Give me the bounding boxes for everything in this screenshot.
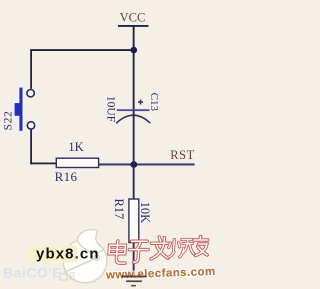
capacitor plus sign: [138, 100, 143, 105]
capacitor C13 curved plate: [116, 115, 150, 123]
wire junction A down to capacitor: [133, 50, 135, 110]
glyph 子: [128, 241, 148, 262]
svg-text:R16: R16: [55, 169, 78, 184]
wire VCC bar to junction A: [133, 26, 135, 50]
watermark: www.elecfans.com: [105, 266, 216, 282]
glyph 友: [193, 237, 209, 256]
ground bar 2: [126, 280, 142, 282]
watermark: yellow highlight: [29, 246, 78, 263]
svg-text:10K: 10K: [138, 202, 152, 224]
wire down-left to switch: [30, 50, 32, 89]
switch S22 button cap: [15, 103, 23, 116]
capacitor C13 top plate: [117, 109, 150, 111]
watermark: gray logo circle: [60, 230, 107, 283]
wire corner to R16: [30, 163, 57, 165]
switch S22 top contact: [27, 90, 34, 97]
wire R17 to ground: [133, 243, 135, 277]
ground symbol: [122, 276, 147, 287]
svg-text:R17: R17: [112, 198, 126, 219]
wire junction A to left: [30, 49, 134, 51]
svg-text:RST: RST: [170, 148, 194, 162]
svg-text:C13: C13: [148, 93, 160, 112]
switch S22 plunger bar: [19, 88, 22, 131]
resistor R17 body: [129, 199, 139, 243]
node B junction dot: [130, 161, 137, 168]
svg-text:VCC: VCC: [120, 11, 146, 25]
svg-text:10UF: 10UF: [105, 96, 117, 122]
wire switch to corner: [30, 130, 32, 165]
watermark: red chinese chars (hand drawn hollow-stroke approximations): [108, 237, 208, 264]
glyph 发: [150, 237, 169, 259]
VCC power bar symbol: [118, 25, 149, 27]
glyph 烧: [168, 240, 195, 258]
resistor R16 body: [56, 158, 98, 167]
svg-text:1K: 1K: [68, 140, 83, 154]
node A junction dot: [131, 47, 138, 54]
svg-text:S22: S22: [2, 111, 14, 131]
ground bar 3: [131, 285, 136, 287]
wire R16 to junction B and to RST: [99, 163, 195, 165]
wire capacitor to R17: [133, 111, 135, 200]
svg-text:BaiCO'E: BaiCO'E: [3, 265, 62, 281]
glyph 电: [108, 241, 126, 263]
svg-text:ybx8.cn: ybx8.cn: [36, 246, 100, 263]
switch S22 bottom contact: [27, 122, 34, 129]
ground bar 1: [122, 276, 147, 278]
